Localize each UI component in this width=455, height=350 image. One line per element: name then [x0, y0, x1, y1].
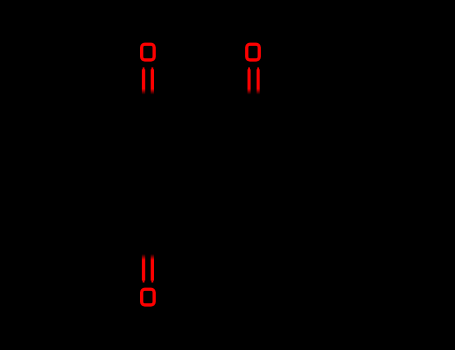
double bond C4=O3 (red half, fades toward carbon): [142, 254, 154, 283]
atom O2 (top-right carbonyl oxygen): [247, 44, 260, 60]
atom O1 (top-left carbonyl oxygen): [142, 44, 155, 60]
double bond C1=O1 (red half, fades toward carbon): [142, 67, 154, 94]
atom O3 (bottom carbonyl oxygen): [142, 289, 155, 305]
double bond C2=O2 (red half, fades toward carbon): [248, 67, 260, 94]
